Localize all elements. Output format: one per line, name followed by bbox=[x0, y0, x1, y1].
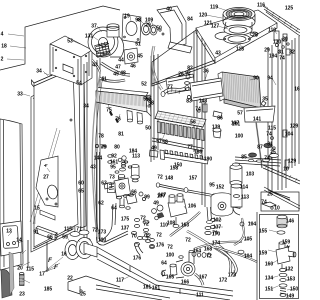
svg-text:158: 158 bbox=[170, 166, 179, 172]
fittings 102 137 bbox=[210, 218, 244, 253]
svg-text:64: 64 bbox=[111, 206, 117, 212]
casing front-top edges bbox=[152, 30, 215, 86]
block drain pipe bbox=[205, 207, 213, 235]
pipe 173 bbox=[215, 247, 236, 276]
svg-text:52: 52 bbox=[141, 82, 147, 88]
svg-text:64: 64 bbox=[161, 261, 167, 267]
svg-text:74: 74 bbox=[261, 200, 267, 206]
inset box large bbox=[260, 215, 299, 299]
svg-text:85: 85 bbox=[241, 155, 247, 161]
svg-text:149: 149 bbox=[286, 294, 295, 300]
fan volute 37 bbox=[88, 24, 124, 57]
roof rail 125 bbox=[263, 6, 300, 36]
svg-text:90: 90 bbox=[253, 76, 259, 82]
svg-text:76: 76 bbox=[115, 117, 121, 123]
assembly lines bbox=[30, 128, 60, 224]
svg-text:137: 137 bbox=[121, 226, 130, 232]
venturi 45 bbox=[124, 48, 138, 64]
disc 151 bbox=[279, 284, 287, 287]
svg-text:148: 148 bbox=[165, 176, 174, 182]
washer 155 bbox=[277, 231, 285, 234]
chamber right columns bbox=[151, 54, 158, 162]
burner door 27 bbox=[36, 156, 59, 207]
svg-text:172: 172 bbox=[219, 278, 228, 284]
svg-text:43: 43 bbox=[215, 51, 221, 57]
svg-text:28: 28 bbox=[252, 33, 258, 39]
svg-text:107: 107 bbox=[158, 193, 167, 199]
svg-text:25: 25 bbox=[270, 150, 276, 156]
svg-text:74: 74 bbox=[264, 156, 270, 162]
elbow 87 bbox=[264, 143, 272, 147]
svg-text:36: 36 bbox=[203, 69, 209, 75]
svg-text:105: 105 bbox=[244, 237, 253, 243]
svg-text:100: 100 bbox=[235, 134, 244, 140]
svg-text:66: 66 bbox=[131, 190, 137, 196]
svg-text:37: 37 bbox=[91, 24, 97, 30]
base rail 117 bbox=[84, 243, 233, 300]
svg-text:65: 65 bbox=[78, 189, 84, 195]
gas cock 66 bbox=[115, 158, 137, 204]
svg-text:34: 34 bbox=[83, 104, 89, 110]
svg-text:110: 110 bbox=[268, 28, 276, 34]
svg-text:134: 134 bbox=[265, 276, 274, 282]
hydro block 152 bbox=[211, 193, 240, 216]
svg-text:20: 20 bbox=[17, 266, 23, 272]
svg-text:77: 77 bbox=[167, 85, 173, 91]
svg-text:30: 30 bbox=[282, 37, 288, 43]
pipe pump to valve bbox=[170, 212, 200, 236]
svg-text:16: 16 bbox=[294, 87, 300, 93]
svg-text:25: 25 bbox=[267, 192, 273, 198]
svg-text:166: 166 bbox=[181, 280, 190, 286]
pipe 104 lower bbox=[216, 247, 257, 262]
hinge rod 115 bbox=[27, 240, 29, 268]
svg-text:22: 22 bbox=[67, 276, 73, 282]
svg-text:186: 186 bbox=[194, 150, 203, 156]
cup 139 bbox=[213, 128, 221, 138]
svg-text:29: 29 bbox=[145, 23, 151, 29]
expansion vessel 103 bbox=[230, 163, 242, 190]
svg-text:53: 53 bbox=[67, 39, 73, 45]
drain pipe bbox=[256, 122, 262, 168]
svg-text:86: 86 bbox=[217, 116, 223, 122]
svg-text:72: 72 bbox=[167, 245, 173, 251]
svg-text:71: 71 bbox=[76, 227, 82, 233]
svg-text:102: 102 bbox=[213, 218, 222, 224]
right frame column 94 bbox=[268, 37, 290, 200]
svg-text:34: 34 bbox=[36, 69, 42, 75]
svg-text:155: 155 bbox=[259, 229, 268, 235]
svg-text:127: 127 bbox=[211, 24, 220, 30]
svg-text:160: 160 bbox=[265, 262, 274, 268]
svg-text:164: 164 bbox=[193, 249, 202, 255]
inset box small bbox=[261, 192, 299, 211]
cap 146 bbox=[277, 215, 287, 228]
svg-text:104: 104 bbox=[248, 222, 257, 228]
svg-text:72: 72 bbox=[143, 233, 149, 239]
svg-text:72: 72 bbox=[92, 228, 98, 234]
strip 60 65 bbox=[79, 72, 86, 228]
fan inlet grille bbox=[95, 41, 111, 57]
leaders 17 bbox=[44, 257, 63, 272]
tray 141 bbox=[244, 106, 275, 122]
svg-text:176: 176 bbox=[156, 243, 165, 249]
strip 15 bbox=[40, 210, 55, 220]
svg-text:173: 173 bbox=[228, 273, 237, 279]
svg-text:129: 129 bbox=[288, 159, 297, 165]
svg-text:100: 100 bbox=[166, 253, 175, 259]
svg-text:118: 118 bbox=[236, 47, 244, 53]
svg-text:19: 19 bbox=[124, 14, 130, 20]
washer 149 bbox=[280, 294, 286, 297]
svg-text:50: 50 bbox=[145, 126, 151, 132]
svg-text:95: 95 bbox=[209, 183, 215, 189]
svg-text:161: 161 bbox=[152, 286, 161, 292]
svg-text:150: 150 bbox=[290, 287, 299, 293]
pump manifold 111 bbox=[161, 250, 203, 285]
valve 160 bbox=[276, 242, 296, 268]
svg-text:111: 111 bbox=[196, 293, 204, 299]
collar base 127 bbox=[224, 22, 252, 35]
svg-text:153: 153 bbox=[287, 277, 296, 283]
hose 77 bbox=[163, 88, 186, 94]
flue collar 119 bbox=[223, 8, 255, 29]
svg-text:26: 26 bbox=[178, 72, 184, 78]
fittings 99 bbox=[126, 192, 146, 209]
spring 150 bbox=[280, 288, 286, 294]
ring 109 bbox=[150, 25, 157, 35]
svg-text:45: 45 bbox=[137, 54, 143, 60]
sensor 92 81 93 bbox=[185, 75, 191, 99]
drain 62 bbox=[102, 203, 116, 240]
svg-text:74: 74 bbox=[195, 107, 201, 113]
svg-text:115: 115 bbox=[26, 267, 34, 273]
gas valve 106 bbox=[152, 194, 187, 228]
svg-text:184: 184 bbox=[129, 149, 138, 155]
svg-text:120: 120 bbox=[199, 13, 208, 19]
leader lines bbox=[8, 34, 24, 36]
pipe 172 bbox=[219, 246, 231, 273]
washers 72 175 137 70 bbox=[134, 218, 154, 247]
screws 50 bbox=[159, 29, 164, 35]
bolts right column bbox=[269, 130, 289, 168]
svg-text:72: 72 bbox=[185, 238, 191, 244]
rear panel 34 bbox=[32, 66, 79, 247]
svg-text:107: 107 bbox=[231, 121, 240, 127]
valve body 63 bbox=[108, 178, 131, 208]
svg-text:79: 79 bbox=[100, 145, 106, 151]
svg-text:91: 91 bbox=[33, 230, 39, 236]
washer 134 bbox=[279, 273, 287, 276]
svg-text:100: 100 bbox=[98, 238, 107, 244]
svg-text:190: 190 bbox=[204, 157, 213, 163]
svg-text:25: 25 bbox=[80, 292, 86, 298]
bracket 22 bbox=[68, 276, 120, 294]
svg-text:106: 106 bbox=[188, 204, 197, 210]
svg-text:194: 194 bbox=[269, 54, 278, 60]
svg-text:10: 10 bbox=[274, 206, 280, 212]
svg-text:43: 43 bbox=[90, 165, 96, 171]
side panel 33 bbox=[31, 74, 75, 252]
svg-text:92: 92 bbox=[185, 71, 191, 77]
nut 132 bbox=[279, 268, 286, 271]
svg-text:56: 56 bbox=[190, 120, 196, 126]
pipe 41 bbox=[99, 78, 125, 81]
inset frame line bbox=[256, 212, 258, 300]
svg-text:99: 99 bbox=[144, 195, 150, 201]
air box 53 bbox=[50, 36, 92, 85]
svg-text:94: 94 bbox=[267, 76, 273, 82]
svg-text:60: 60 bbox=[78, 181, 84, 187]
svg-text:31: 31 bbox=[267, 142, 273, 148]
svg-text:176: 176 bbox=[133, 256, 142, 262]
svg-text:14: 14 bbox=[16, 238, 22, 244]
valve cluster 63 73 bbox=[118, 156, 126, 179]
svg-text:74: 74 bbox=[266, 132, 272, 138]
washer row 72 164 168 bbox=[192, 252, 211, 258]
svg-text:159: 159 bbox=[259, 251, 268, 257]
svg-text:17: 17 bbox=[39, 272, 45, 278]
bracket 63b bbox=[104, 183, 112, 190]
air hose 42 bbox=[101, 63, 130, 75]
svg-text:13: 13 bbox=[6, 229, 12, 235]
control panel 13 bbox=[0, 221, 22, 256]
svg-text:84: 84 bbox=[187, 17, 193, 23]
svg-text:157: 157 bbox=[189, 176, 198, 182]
ring 28 bbox=[250, 32, 258, 36]
svg-text:181: 181 bbox=[143, 285, 152, 291]
tray 26 bbox=[166, 74, 195, 94]
svg-text:75: 75 bbox=[106, 108, 112, 114]
air duct 40 bbox=[157, 6, 192, 53]
screw 159a bbox=[286, 245, 290, 248]
svg-text:49: 49 bbox=[151, 146, 157, 152]
svg-text:139: 139 bbox=[212, 125, 221, 131]
bracket 74/10 in box bbox=[262, 202, 276, 209]
trim strip 91 bbox=[36, 226, 57, 240]
svg-text:72: 72 bbox=[206, 254, 212, 260]
svg-text:132: 132 bbox=[285, 267, 294, 273]
clip 35 bbox=[261, 101, 266, 106]
elbow 85 bbox=[249, 153, 257, 157]
valve parts 144 92 161 bbox=[95, 144, 112, 163]
svg-text:51: 51 bbox=[135, 42, 141, 48]
svg-text:70: 70 bbox=[131, 234, 137, 240]
svg-text:41: 41 bbox=[101, 77, 107, 83]
gasket 118 bbox=[224, 34, 251, 44]
svg-text:141: 141 bbox=[253, 117, 262, 123]
svg-text:57: 57 bbox=[237, 111, 243, 117]
svg-text:144: 144 bbox=[94, 156, 103, 162]
svg-text:57: 57 bbox=[156, 139, 162, 145]
svg-text:77: 77 bbox=[187, 145, 193, 151]
svg-text:58: 58 bbox=[148, 101, 154, 107]
svg-text:54: 54 bbox=[76, 81, 82, 87]
gasket 71 bbox=[70, 230, 89, 236]
svg-text:159: 159 bbox=[282, 240, 291, 246]
svg-text:49: 49 bbox=[153, 201, 159, 207]
svg-text:33: 33 bbox=[17, 92, 23, 98]
svg-text:73: 73 bbox=[109, 175, 115, 181]
right edge panel bbox=[292, 36, 299, 168]
membrane 153 bbox=[280, 279, 286, 282]
secondary heat exchanger 90 bbox=[218, 72, 261, 112]
svg-text:104: 104 bbox=[285, 132, 294, 138]
capillary tubes bbox=[92, 74, 100, 237]
pipe 164 bbox=[187, 231, 231, 258]
primary heat exchanger 55 bbox=[96, 88, 151, 124]
svg-text:16: 16 bbox=[61, 252, 67, 258]
svg-text:23: 23 bbox=[19, 292, 25, 298]
gas pipe 100 bbox=[97, 152, 100, 238]
bracket parts 110 130 29 30 bbox=[274, 31, 290, 55]
hose 43 bbox=[92, 60, 100, 72]
svg-text:69: 69 bbox=[62, 235, 68, 241]
svg-text:66: 66 bbox=[47, 235, 53, 241]
hose fan-down bbox=[151, 46, 161, 90]
svg-text:185: 185 bbox=[44, 287, 53, 293]
svg-text:74: 74 bbox=[279, 56, 285, 62]
svg-text:18: 18 bbox=[1, 44, 7, 50]
svg-text:78: 78 bbox=[98, 134, 104, 140]
svg-text:151: 151 bbox=[265, 287, 274, 293]
svg-text:2: 2 bbox=[1, 57, 4, 63]
svg-text:115: 115 bbox=[64, 227, 72, 233]
injector manifold 190 bbox=[160, 150, 208, 164]
side rail 126 bbox=[263, 165, 300, 184]
top panel 121 bbox=[196, 10, 277, 63]
svg-text:163: 163 bbox=[181, 223, 190, 229]
svg-text:129: 129 bbox=[290, 124, 299, 130]
svg-text:167: 167 bbox=[199, 275, 208, 281]
svg-text:62: 62 bbox=[98, 201, 104, 207]
svg-text:58: 58 bbox=[162, 140, 168, 146]
svg-text:146: 146 bbox=[286, 219, 295, 225]
svg-text:72: 72 bbox=[156, 233, 162, 239]
burner end bracket bbox=[149, 150, 158, 157]
svg-text:95: 95 bbox=[110, 165, 116, 171]
fan plate 39 bbox=[122, 14, 141, 43]
svg-text:104: 104 bbox=[244, 254, 253, 260]
sight glass 69 bbox=[65, 238, 93, 260]
svg-text:44: 44 bbox=[118, 58, 124, 64]
svg-text:4: 4 bbox=[1, 32, 4, 38]
rear frame columns bbox=[194, 30, 205, 207]
tray 36 bbox=[190, 78, 223, 101]
svg-text:131: 131 bbox=[85, 34, 94, 40]
washer stacks low bbox=[131, 232, 154, 249]
svg-text:35: 35 bbox=[262, 97, 268, 103]
svg-text:130: 130 bbox=[273, 40, 282, 46]
svg-text:165: 165 bbox=[166, 275, 175, 281]
svg-text:48: 48 bbox=[120, 71, 126, 77]
cartridge 23 bbox=[20, 273, 25, 286]
pipe 100 elbow bbox=[97, 231, 129, 245]
svg-text:113: 113 bbox=[241, 195, 249, 201]
svg-text:72: 72 bbox=[143, 222, 149, 228]
rod 185 bbox=[46, 242, 48, 272]
svg-text:46: 46 bbox=[130, 64, 136, 70]
shelf crossbar bbox=[235, 157, 281, 166]
svg-text:87: 87 bbox=[257, 145, 263, 151]
svg-text:98: 98 bbox=[135, 18, 141, 24]
front wrap panel 2 bbox=[0, 119, 23, 270]
svg-text:27: 27 bbox=[43, 175, 49, 181]
svg-text:116: 116 bbox=[257, 3, 265, 9]
svg-text:81: 81 bbox=[118, 132, 124, 138]
svg-text:168: 168 bbox=[204, 247, 213, 253]
svg-text:40: 40 bbox=[166, 7, 172, 13]
lower corner panel bbox=[1, 269, 12, 298]
casing outline (rear-left edge) bbox=[0, 6, 120, 70]
svg-text:32: 32 bbox=[289, 50, 295, 56]
pipe 104 vertical bbox=[234, 218, 244, 245]
small parts 143 74 bbox=[198, 104, 222, 118]
gasket 98 bbox=[142, 23, 151, 35]
svg-text:15: 15 bbox=[34, 206, 40, 212]
svg-text:49: 49 bbox=[113, 72, 119, 78]
svg-text:50: 50 bbox=[156, 26, 162, 32]
svg-text:174: 174 bbox=[212, 241, 221, 247]
chamber front frame columns bbox=[84, 58, 100, 246]
pipe cylinder 67 bbox=[131, 164, 140, 182]
svg-text:72: 72 bbox=[157, 175, 163, 181]
svg-text:143: 143 bbox=[199, 99, 208, 105]
svg-text:10: 10 bbox=[283, 167, 289, 173]
svg-text:108: 108 bbox=[167, 221, 176, 227]
lower rail 181 bbox=[96, 285, 170, 300]
svg-text:117: 117 bbox=[116, 278, 124, 284]
svg-text:70: 70 bbox=[212, 231, 218, 237]
svg-text:80: 80 bbox=[114, 145, 120, 151]
brace bbox=[264, 187, 300, 209]
pipe stub 176 bbox=[134, 244, 143, 255]
svg-text:125: 125 bbox=[285, 6, 294, 12]
gas pipe 157 bbox=[156, 183, 216, 198]
burner 56 bbox=[152, 111, 206, 151]
svg-text:83: 83 bbox=[186, 99, 192, 105]
svg-text:152: 152 bbox=[216, 185, 225, 191]
svg-text:175: 175 bbox=[121, 217, 130, 223]
svg-text:43: 43 bbox=[92, 63, 98, 69]
hydro neck bbox=[231, 184, 242, 215]
pipe 174 bbox=[194, 242, 242, 249]
svg-text:114: 114 bbox=[240, 185, 248, 191]
svg-text:59: 59 bbox=[143, 97, 149, 103]
svg-text:103: 103 bbox=[246, 172, 255, 178]
cock dark bbox=[157, 213, 164, 219]
svg-text:173: 173 bbox=[98, 230, 107, 236]
svg-text:63: 63 bbox=[101, 181, 107, 187]
svg-text:119: 119 bbox=[210, 5, 218, 11]
